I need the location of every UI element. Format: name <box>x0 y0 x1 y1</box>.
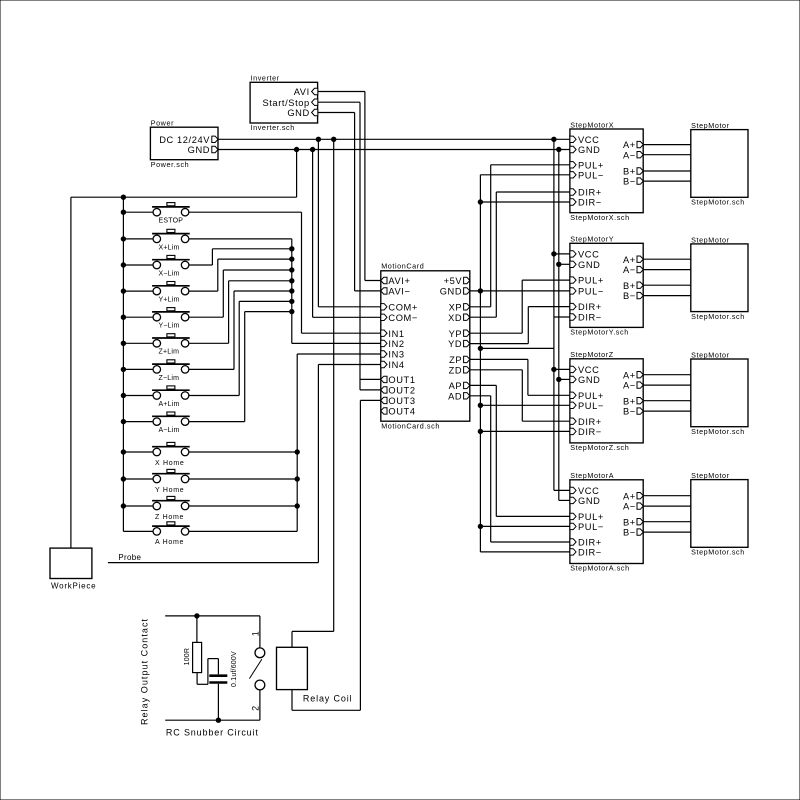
wire MotionCard GND to StepMotorY PUL- <box>470 290 570 292</box>
svg-text:OUT1: OUT1 <box>388 375 415 385</box>
wire VCC rail vertical <box>553 139 555 490</box>
svg-text:1: 1 <box>251 631 261 636</box>
svg-text:Relay Coil: Relay Coil <box>303 693 353 703</box>
sheet pin B+ (StepMotorY) <box>623 281 643 291</box>
sheet pin GND (Power) <box>188 145 218 155</box>
wire A− StepMotorZ to motor <box>643 384 691 386</box>
junction bus Z−Lim <box>121 367 125 371</box>
wire Inverter AVI to MotionCard AVI+ <box>318 92 381 281</box>
junction DC/VCC rail <box>552 137 556 141</box>
svg-text:Z−Lim: Z−Lim <box>159 375 180 382</box>
svg-text:X+Lim: X+Lim <box>159 244 180 251</box>
svg-text:ESTOP: ESTOP <box>159 218 184 225</box>
svg-text:GND: GND <box>578 496 600 506</box>
wire Z+Lim to collector <box>189 281 292 344</box>
wire GND rail vertical <box>558 150 560 501</box>
wire AP to StepMotorA PUL+ <box>470 385 570 516</box>
svg-text:PUL−: PUL− <box>578 287 604 297</box>
wire AD to StepMotorA DIR+ <box>470 396 570 542</box>
junction bus A+Lim <box>121 393 125 397</box>
sheet pin A+ (StepMotorZ) <box>623 370 643 380</box>
svg-text:B−: B− <box>623 291 636 301</box>
svg-text:PUL−: PUL− <box>578 170 604 180</box>
svg-text:WorkPiece: WorkPiece <box>51 582 96 591</box>
svg-text:OUT2: OUT2 <box>388 386 415 396</box>
sheet pin PUL− (StepMotorZ) <box>570 401 604 411</box>
svg-text:B−: B− <box>623 407 636 417</box>
svg-text:VCC: VCC <box>578 365 599 375</box>
svg-text:StepMotorZ.sch: StepMotorZ.sch <box>570 443 629 452</box>
sheet pin PUL− (StepMotorY) <box>570 287 604 297</box>
svg-text:AD: AD <box>448 391 462 401</box>
wire B+ StepMotorX to motor <box>643 170 691 172</box>
sheet pin IN2 (MotionCard) <box>381 339 405 349</box>
svg-text:DIR+: DIR+ <box>578 302 602 312</box>
junction GND-D rail <box>478 289 482 293</box>
wire GND rail to StepMotorY GND <box>559 263 570 265</box>
switch X−Lim <box>152 255 190 277</box>
junction snubber top <box>195 614 199 618</box>
svg-text:A+: A+ <box>623 491 636 501</box>
svg-text:B+: B+ <box>623 396 636 406</box>
wire A+Lim left <box>123 395 153 397</box>
wire XP to StepMotorX PUL+ <box>470 165 570 307</box>
svg-text:B−: B− <box>623 177 636 187</box>
junction DC/relay <box>332 137 336 141</box>
sheet pin OUT2 (MotionCard) <box>381 386 416 396</box>
svg-text:StepMotor.sch: StepMotor.sch <box>691 427 745 436</box>
wire rail to VCC rail connector <box>480 347 554 349</box>
hierarchical sheet StepMotor (motor A) <box>691 471 748 557</box>
wire A+ StepMotorA to motor <box>643 495 691 497</box>
wire A− StepMotorY to motor <box>643 269 691 271</box>
sheet pin VCC (StepMotorA) <box>570 486 600 496</box>
wire Z−Lim to collector <box>189 291 292 369</box>
junction GND/COM- <box>310 147 314 151</box>
sheet pin PUL+ (StepMotorA) <box>570 512 604 522</box>
svg-text:StepMotorX: StepMotorX <box>570 120 614 129</box>
hierarchical sheet Inverter <box>250 73 318 132</box>
wire Z Home right <box>189 505 297 507</box>
junction bus ESTOP <box>121 210 125 214</box>
svg-text:ZP: ZP <box>449 355 462 365</box>
svg-text:StepMotorY.sch: StepMotorY.sch <box>570 328 629 337</box>
sheet pin A− (StepMotorX) <box>623 150 643 160</box>
wire X+Lim left <box>123 238 153 240</box>
svg-text:Y−Lim: Y−Lim <box>159 323 180 330</box>
svg-text:DIR−: DIR− <box>578 548 602 558</box>
sheet pin DIR− (StepMotorX) <box>570 198 602 208</box>
svg-text:DIR+: DIR+ <box>578 538 602 548</box>
wire VCC rail to StepMotorZ VCC <box>554 368 570 370</box>
junction bus Y+Lim <box>121 289 125 293</box>
hierarchical sheet StepMotorA <box>570 471 643 573</box>
sheet pin B+ (StepMotorZ) <box>623 396 643 406</box>
wire DC to relay coil top <box>292 139 334 647</box>
wire VCC rail to StepMotorA VCC <box>554 489 570 491</box>
wire Y Home left <box>123 478 153 480</box>
sheet pin B− (StepMotorY) <box>623 291 643 301</box>
svg-text:Inverter: Inverter <box>251 73 280 82</box>
switch X Home <box>152 442 190 466</box>
junction bus Z Home <box>121 504 125 508</box>
wire A− StepMotorA to motor <box>643 505 691 507</box>
svg-text:DC 12/24V: DC 12/24V <box>159 135 210 145</box>
wire StepMotorZ DIR- to rail <box>480 430 570 432</box>
svg-text:StepMotorX.sch: StepMotorX.sch <box>570 213 630 222</box>
wire B− StepMotorX to motor <box>643 180 691 182</box>
switch Y−Lim <box>152 308 190 330</box>
wire A− StepMotorX to motor <box>643 154 691 156</box>
sheet pin A+ (StepMotorX) <box>623 140 643 150</box>
wire Inverter Start/Stop to OUT1/OUT2 <box>318 102 381 390</box>
hierarchical sheet StepMotor (motor Z) <box>691 350 748 436</box>
svg-text:A+Lim: A+Lim <box>159 401 180 408</box>
wire B+ StepMotorA to motor <box>643 521 691 523</box>
sheet pin B+ (StepMotorX) <box>623 167 643 177</box>
sheet pin AD (MotionCard) <box>448 391 470 401</box>
sheet pin B− (StepMotorX) <box>623 177 643 187</box>
svg-text:100R: 100R <box>184 648 191 666</box>
junction bus X+Lim <box>121 237 125 241</box>
svg-text:PUL+: PUL+ <box>578 391 604 401</box>
svg-text:Z Home: Z Home <box>155 514 184 521</box>
svg-text:StepMotor: StepMotor <box>691 471 730 480</box>
svg-text:AVI+: AVI+ <box>388 276 410 286</box>
svg-text:Y Home: Y Home <box>155 487 184 494</box>
sheet pin IN1 (MotionCard) <box>381 329 405 339</box>
wire A+ StepMotorZ to motor <box>643 374 691 376</box>
wire limit collector to IN2 <box>292 239 381 344</box>
sheet pin XD (MotionCard) <box>448 313 470 323</box>
switch A Home <box>152 522 190 546</box>
junction GND/GND rail <box>557 147 561 151</box>
junction GND Z <box>557 377 561 381</box>
svg-text:A−: A− <box>623 502 636 512</box>
wire GND rail to StepMotorZ GND <box>559 378 570 380</box>
junction switch bus top <box>121 195 125 199</box>
svg-text:B−: B− <box>623 528 636 538</box>
sheet pin DIR− (StepMotorA) <box>570 548 602 558</box>
svg-text:PUL+: PUL+ <box>578 160 604 170</box>
svg-text:A+: A+ <box>623 140 636 150</box>
junction rail connector <box>478 346 482 350</box>
sheet pin A− (StepMotorZ) <box>623 381 643 391</box>
junction bus Z+Lim <box>121 341 125 345</box>
wire X Home right <box>189 451 297 453</box>
svg-text:GND: GND <box>578 145 600 155</box>
junction DC/COM+ <box>316 137 320 141</box>
svg-text:DIR+: DIR+ <box>578 417 602 427</box>
junction home bus X Home <box>295 450 299 454</box>
svg-text:StepMotorA.sch: StepMotorA.sch <box>570 564 630 573</box>
svg-text:AVI: AVI <box>294 87 310 97</box>
switch Z−Lim <box>152 360 190 382</box>
junction bus Y Home <box>121 477 125 481</box>
sheet pin VCC (StepMotorX) <box>570 135 600 145</box>
svg-text:GND: GND <box>578 260 600 270</box>
svg-text:A−: A− <box>623 381 636 391</box>
svg-text:AVI−: AVI− <box>388 287 410 297</box>
svg-text:PUL+: PUL+ <box>578 512 604 522</box>
junction collector A−Lim <box>290 309 294 313</box>
switch X+Lim <box>152 229 190 251</box>
svg-text:StepMotorZ: StepMotorZ <box>570 350 614 359</box>
wire A+ StepMotorY to motor <box>643 258 691 260</box>
sheet pin AP (MotionCard) <box>449 381 470 391</box>
wire ZP to StepMotorZ PUL+ <box>470 359 570 395</box>
sheet pin AVI+ (MotionCard) <box>381 276 411 286</box>
junction rail Z DIR- <box>478 429 482 433</box>
svg-text:StepMotor.sch: StepMotor.sch <box>691 548 745 557</box>
wire switch left bus <box>123 197 153 531</box>
wire GND bus <box>218 149 570 151</box>
svg-text:MotionCard.sch: MotionCard.sch <box>381 421 440 430</box>
wire StepMotorX DIR- to rail <box>480 201 570 203</box>
sheet pin AVI (Inverter) <box>294 87 318 97</box>
svg-text:DIR−: DIR− <box>578 313 602 323</box>
wire workpiece drop <box>70 197 72 548</box>
junction bus Y−Lim <box>121 315 125 319</box>
wire StepMotorY DIR- stub <box>554 316 570 318</box>
svg-text:Power: Power <box>151 119 174 128</box>
svg-text:B+: B+ <box>623 281 636 291</box>
svg-text:StepMotor: StepMotor <box>691 350 730 359</box>
svg-text:COM−: COM− <box>388 313 418 323</box>
junction collector X−Lim <box>290 247 294 251</box>
junction GND Y <box>557 262 561 266</box>
sheet pin DIR+ (StepMotorY) <box>570 302 602 312</box>
hierarchical sheet MotionCard <box>381 262 470 431</box>
wire home bus to IN3 <box>297 354 381 531</box>
wire X−Lim to collector <box>189 249 292 265</box>
sheet pin GND (StepMotorX) <box>570 145 601 155</box>
svg-text:PUL−: PUL− <box>578 401 604 411</box>
sheet pin OUT4 (MotionCard) <box>381 407 416 417</box>
svg-text:YP: YP <box>449 329 463 339</box>
wire X Home left <box>123 451 153 453</box>
sheet pin PUL+ (StepMotorY) <box>570 276 604 286</box>
sheet pin B− (StepMotorA) <box>623 528 643 538</box>
sheet pin OUT1 (MotionCard) <box>381 375 416 385</box>
wire relay coil bottom to OUT3 <box>292 400 381 710</box>
svg-text:DIR−: DIR− <box>578 198 602 208</box>
wire A−Lim to collector <box>189 312 292 422</box>
wire A+Lim to collector <box>189 301 292 395</box>
wire Y+Lim left <box>123 290 153 292</box>
sheet pin VCC (StepMotorZ) <box>570 365 600 375</box>
svg-text:StepMotor.sch: StepMotor.sch <box>691 198 745 207</box>
sheet pin DC 12/24V (Power) <box>159 135 218 145</box>
relay output contact SW1 <box>249 616 264 720</box>
svg-text:OUT3: OUT3 <box>388 396 415 406</box>
wire GND to COM- <box>313 150 381 318</box>
sheet pin COM+ (MotionCard) <box>381 302 418 312</box>
svg-text:Z+Lim: Z+Lim <box>159 349 180 356</box>
svg-text:IN4: IN4 <box>388 360 404 370</box>
svg-text:X−Lim: X−Lim <box>159 270 180 277</box>
hierarchical sheet StepMotorY <box>570 235 643 337</box>
wire Inverter GND to MotionCard AVI- <box>318 113 381 291</box>
wire Y+Lim to collector <box>189 259 292 291</box>
sheet pin YD (MotionCard) <box>448 339 470 349</box>
sheet pin +5V (MotionCard) <box>444 276 470 286</box>
junction bus X Home <box>121 450 125 454</box>
svg-text:RC Snubber Circuit: RC Snubber Circuit <box>166 728 259 738</box>
sheet pin OUT3 (MotionCard) <box>381 396 416 406</box>
svg-text:X Home: X Home <box>155 460 185 467</box>
svg-text:OUT4: OUT4 <box>388 407 415 417</box>
wire DC 12/24V bus <box>218 138 570 140</box>
svg-text:VCC: VCC <box>578 486 599 496</box>
wire Z+Lim left <box>123 342 153 344</box>
svg-text:B+: B+ <box>623 517 636 527</box>
wire contact top rail <box>165 615 260 617</box>
junction collector Y−Lim <box>290 268 294 272</box>
sheet pin A− (StepMotorY) <box>623 265 643 275</box>
svg-text:A Home: A Home <box>155 539 184 546</box>
wire A Home right <box>189 530 297 532</box>
sheet pin YP (MotionCard) <box>449 329 470 339</box>
svg-text:0.1uf/600V: 0.1uf/600V <box>231 651 238 687</box>
sheet pin A+ (StepMotorY) <box>623 255 643 265</box>
sheet pin PUL+ (StepMotorZ) <box>570 391 604 401</box>
sheet pin DIR− (StepMotorY) <box>570 313 602 323</box>
svg-text:GND: GND <box>578 375 600 385</box>
sheet pin ZP (MotionCard) <box>449 355 470 365</box>
wire Y−Lim left <box>123 316 153 318</box>
svg-text:B+: B+ <box>623 167 636 177</box>
svg-text:XD: XD <box>448 313 462 323</box>
junction VCC Y <box>552 252 556 256</box>
wire DC to COM+ <box>318 139 380 306</box>
svg-text:+5V: +5V <box>444 276 463 286</box>
svg-text:PUL+: PUL+ <box>578 276 604 286</box>
sheet pin DIR− (StepMotorZ) <box>570 427 602 437</box>
svg-text:Y+Lim: Y+Lim <box>159 297 180 304</box>
svg-text:GND: GND <box>287 108 309 118</box>
sheet pin GND (Inverter) <box>287 108 317 118</box>
wire Y Home right <box>189 478 297 480</box>
svg-text:A−Lim: A−Lim <box>159 427 180 434</box>
switch Z Home <box>152 496 190 520</box>
relay coil <box>277 647 353 703</box>
wire A+ StepMotorX to motor <box>643 144 691 146</box>
sheet pin A− (StepMotorA) <box>623 502 643 512</box>
wire A−Lim left <box>123 421 153 423</box>
sheet pin PUL− (StepMotorX) <box>570 170 604 180</box>
sheet pin ZD (MotionCard) <box>449 365 470 375</box>
svg-text:A−: A− <box>623 265 636 275</box>
wire Z Home left <box>123 505 153 507</box>
resistor 100R <box>184 616 202 673</box>
junction rail A PUL- <box>478 524 482 528</box>
wire StepMotorA DIR- to rail <box>480 551 570 553</box>
wire B− StepMotorA to motor <box>643 531 691 533</box>
switch ESTOP <box>152 203 190 225</box>
switch Z+Lim <box>152 334 190 356</box>
svg-text:StepMotor.sch: StepMotor.sch <box>691 312 745 321</box>
svg-text:DIR+: DIR+ <box>578 188 602 198</box>
sheet pin Start/Stop (Inverter) <box>262 98 317 108</box>
hierarchical sheet StepMotorX <box>570 120 643 221</box>
svg-text:PUL−: PUL− <box>578 522 604 532</box>
svg-text:Power.sch: Power.sch <box>151 160 190 169</box>
sheet pin AVI− (MotionCard) <box>381 287 411 297</box>
wire YD to StepMotorY DIR+ <box>470 307 570 344</box>
svg-text:Inverter.sch: Inverter.sch <box>251 123 295 132</box>
sheet pin DIR+ (StepMotorZ) <box>570 417 602 427</box>
junction collector Y+Lim <box>290 257 294 261</box>
sheet pin IN3 (MotionCard) <box>381 350 405 360</box>
svg-text:Start/Stop: Start/Stop <box>262 98 309 108</box>
switch A−Lim <box>152 412 190 434</box>
capacitor 0.1uf/600V <box>209 651 238 720</box>
switch A+Lim <box>152 386 190 408</box>
wire StepMotorZ PUL- to rail <box>480 404 570 406</box>
wire B− StepMotorY to motor <box>643 295 691 297</box>
svg-text:GND: GND <box>188 145 210 155</box>
switch Y Home <box>152 469 190 493</box>
wire resistor to capacitor <box>197 659 218 685</box>
junction bus X−Lim <box>121 263 125 267</box>
wire XD to StepMotorX DIR+ <box>470 192 570 317</box>
svg-text:YD: YD <box>448 339 462 349</box>
wire Y−Lim to collector <box>189 270 292 317</box>
wire B+ StepMotorY to motor <box>643 284 691 286</box>
sheet pin GND (StepMotorY) <box>570 260 601 270</box>
sheet pin B+ (StepMotorA) <box>623 517 643 527</box>
svg-text:VCC: VCC <box>578 135 599 145</box>
wire GND down to switch bus <box>71 150 297 198</box>
wire StepMotorX PUL- to rail <box>480 174 570 176</box>
svg-text:XP: XP <box>449 302 463 312</box>
junction rail Z PUL- <box>478 403 482 407</box>
junction snubber bottom <box>216 718 220 722</box>
svg-text:StepMotorY: StepMotorY <box>570 235 614 244</box>
wire ZD to StepMotorZ DIR+ <box>470 370 570 421</box>
sheet pin GND (StepMotorA) <box>570 496 601 506</box>
svg-text:2: 2 <box>251 706 261 711</box>
sheet pin XP (MotionCard) <box>449 302 470 312</box>
hierarchical sheet StepMotorZ <box>570 350 643 452</box>
sheet pin DIR+ (StepMotorX) <box>570 188 602 198</box>
svg-text:ZD: ZD <box>449 365 463 375</box>
sheet pin GND (StepMotorZ) <box>570 375 601 385</box>
svg-text:Relay Output Contact: Relay Output Contact <box>140 618 150 725</box>
junction VCC Z <box>552 367 556 371</box>
sheet pin B− (StepMotorZ) <box>623 407 643 417</box>
switch Y+Lim <box>152 282 190 304</box>
wire X−Lim left <box>123 264 153 266</box>
svg-text:AP: AP <box>449 381 463 391</box>
sheet pin PUL+ (StepMotorX) <box>570 160 604 170</box>
junction home bus Z Home <box>295 504 299 508</box>
wire ESTOP left <box>123 211 153 213</box>
svg-text:COM+: COM+ <box>388 302 418 312</box>
sheet pin COM− (MotionCard) <box>381 313 418 323</box>
junction collector A+Lim <box>290 299 294 303</box>
svg-text:GND: GND <box>440 287 462 297</box>
svg-text:StepMotor: StepMotor <box>691 235 730 244</box>
wire ESTOP to IN1 <box>189 212 381 333</box>
svg-text:DIR−: DIR− <box>578 427 602 437</box>
svg-text:A−: A− <box>623 150 636 160</box>
svg-text:StepMotor: StepMotor <box>691 121 730 130</box>
junction home bus Y Home <box>295 477 299 481</box>
junction bus A−Lim <box>121 419 125 423</box>
sheet pin GND (MotionCard) <box>440 287 470 297</box>
